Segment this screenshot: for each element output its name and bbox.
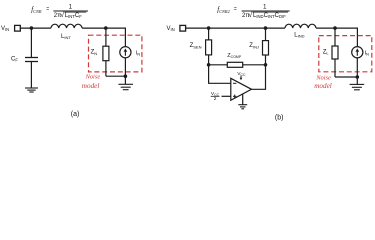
VCC arrow into op-amp xyxy=(240,76,243,80)
formula (b) f_CNR = 1/(2pi sqrt(L_IND C_INT C_DIF)) xyxy=(217,3,290,19)
caption (b) xyxy=(275,114,284,121)
svg-text:(b): (b) xyxy=(275,114,284,121)
wire ZN top stub xyxy=(105,28,107,46)
svg-text:LINTCF: LINTCF xyxy=(65,13,82,19)
wire ZL bottom stub xyxy=(334,59,336,77)
svg-text:ZCOMP: ZCOMP xyxy=(227,53,242,59)
label ZL xyxy=(323,50,330,56)
inductor LINT xyxy=(51,24,82,28)
ground opamp xyxy=(238,105,247,109)
port square VIN (a) xyxy=(15,25,21,31)
svg-text:√: √ xyxy=(248,11,252,19)
svg-text:(a): (a) xyxy=(71,111,80,118)
label ZN xyxy=(91,50,98,56)
svg-text:VCC: VCC xyxy=(237,71,246,77)
svg-text:fCNR: fCNR xyxy=(31,6,42,14)
wire CF to ground xyxy=(30,62,32,89)
svg-text:fCNR2: fCNR2 xyxy=(217,6,230,14)
label LINT xyxy=(61,34,71,40)
wire feedback left xyxy=(209,64,228,66)
svg-text:model: model xyxy=(314,82,332,90)
label Noise model (b) xyxy=(314,74,332,89)
node junction ZN (a) xyxy=(104,26,108,30)
port square VIN (b) xyxy=(180,25,186,31)
wire noninverting input xyxy=(222,95,231,97)
svg-text:1: 1 xyxy=(69,3,73,10)
node junction ground (b) xyxy=(356,75,360,79)
resistor ZL xyxy=(332,46,338,59)
wire top (a) right segment xyxy=(82,28,125,47)
node junction ZINJ xyxy=(264,26,268,30)
svg-text:LINDCINTCDIF: LINDCINTCDIF xyxy=(253,13,286,19)
current source IN (b) xyxy=(352,47,363,58)
svg-text:ZL: ZL xyxy=(323,50,330,56)
label ZINJ xyxy=(249,43,259,49)
node junction CF (a) xyxy=(30,26,34,30)
noise model box (b) xyxy=(319,36,372,72)
wire top (b) left segment xyxy=(186,27,285,29)
label ZCOMP xyxy=(227,53,242,59)
wire IN (b) bottom stub xyxy=(356,57,358,77)
wire ZL top stub xyxy=(334,28,336,46)
svg-text:Noise: Noise xyxy=(85,74,101,81)
current source IN (a) xyxy=(120,47,131,58)
svg-text:=: = xyxy=(46,6,49,12)
label LIND xyxy=(294,32,304,38)
ground CF xyxy=(25,88,38,92)
node junction feedback left xyxy=(207,63,211,67)
wire top (b) right segment xyxy=(316,28,357,47)
formula (a) f_CNR = 1/(2pi sqrt(L_INT C_F)) xyxy=(31,3,88,19)
svg-text:LINT: LINT xyxy=(61,34,71,40)
wire inverting input xyxy=(209,65,231,84)
wire ZINJ bottom stub xyxy=(265,55,267,65)
noise model box (a) xyxy=(89,35,142,72)
capacitor CF xyxy=(25,58,38,62)
wire opamp ground stub xyxy=(242,94,244,105)
caption (a) xyxy=(71,111,80,118)
resistor ZSEN xyxy=(206,40,212,55)
node VIN (a) label xyxy=(1,26,9,32)
wire opamp output xyxy=(252,65,266,90)
wire ZINJ top stub xyxy=(265,28,267,40)
svg-text:IN: IN xyxy=(365,50,370,56)
node junction ground (a) xyxy=(124,74,128,78)
wire bottom (b) xyxy=(335,76,357,78)
label IN (a) xyxy=(136,50,141,56)
svg-text:ZINJ: ZINJ xyxy=(249,43,259,49)
wire ZSEN bottom stub xyxy=(208,55,210,65)
svg-text:2: 2 xyxy=(214,96,217,101)
wire CF branch xyxy=(30,28,32,57)
label Noise model (a) xyxy=(82,74,101,90)
wire bottom (a) xyxy=(106,75,126,77)
resistor ZN xyxy=(103,46,109,61)
label VCC/2 xyxy=(211,91,220,101)
svg-text:VIN: VIN xyxy=(1,26,9,32)
label CF xyxy=(11,57,18,63)
node junction feedback right xyxy=(264,63,268,67)
ground noise model (a) xyxy=(118,84,133,89)
wire IN source bottom stub xyxy=(124,57,126,76)
svg-text:ZN: ZN xyxy=(91,50,98,56)
svg-text:CF: CF xyxy=(11,57,18,63)
node VIN (b) label xyxy=(167,26,175,32)
svg-text:VIN: VIN xyxy=(167,26,175,32)
label ZSEN xyxy=(190,43,202,49)
svg-text:IN: IN xyxy=(136,50,141,56)
wire ground stub (a) xyxy=(124,76,126,84)
wire ZN bottom stub xyxy=(105,61,107,76)
resistor ZCOMP xyxy=(227,62,242,67)
wire ZSEN top stub xyxy=(208,28,210,40)
ground noise model (b) xyxy=(350,84,365,89)
svg-text:√: √ xyxy=(60,11,64,19)
wire top (a) left segment xyxy=(20,27,51,29)
label VCC xyxy=(237,71,246,77)
wire feedback right xyxy=(243,64,266,66)
node junction ZL xyxy=(333,26,337,30)
wire ground stub (b) xyxy=(356,77,358,84)
resistor ZINJ xyxy=(263,41,269,55)
svg-text:1: 1 xyxy=(263,3,267,10)
op-amp U1 xyxy=(231,78,252,100)
node junction ZSEN xyxy=(207,26,211,30)
label IN (b) xyxy=(365,50,370,56)
svg-text:=: = xyxy=(234,6,237,12)
svg-text:ZSEN: ZSEN xyxy=(190,43,202,49)
svg-text:Noise: Noise xyxy=(315,74,331,81)
inductor LIND xyxy=(285,24,316,28)
svg-text:model: model xyxy=(82,82,100,90)
svg-text:LIND: LIND xyxy=(294,32,304,38)
